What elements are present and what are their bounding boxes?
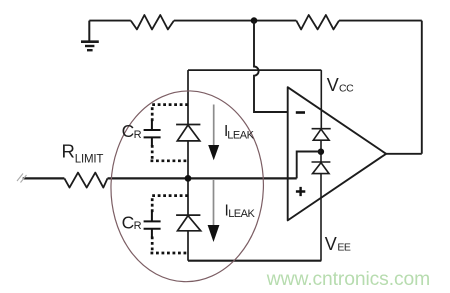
- wire + input to diode node: [297, 152, 321, 179]
- svg-text:www.cntronics.com: www.cntronics.com: [266, 269, 430, 290]
- wire inverting input with hop: [254, 21, 288, 112]
- svg-text:R: R: [134, 129, 142, 141]
- wire input break ticks: [17, 174, 27, 183]
- wire right rail vertical segments: [320, 70, 322, 261]
- wire non-inverting input: [23, 177, 297, 179]
- node top junction: [251, 17, 258, 24]
- diode D2 (left bottom): [176, 215, 201, 231]
- wire right vertical (feedback): [421, 21, 423, 154]
- wire Vcc rail (box top edge): [188, 69, 321, 71]
- wire Vee rail (box bottom edge): [188, 260, 321, 262]
- op-amp plus sign: [296, 187, 305, 196]
- diode D1 (left top): [176, 125, 200, 141]
- arrow I_LEAK top: [213, 105, 215, 147]
- diode D4 (op-amp lower): [312, 162, 331, 174]
- svg-text:LEAK: LEAK: [227, 130, 254, 142]
- capacitor CR bottom dashed link: [151, 196, 189, 253]
- wire op-amp output: [386, 153, 422, 155]
- node diode midpoint: [318, 149, 324, 155]
- arrow I_LEAK bottom: [213, 180, 215, 226]
- ellipse highlight: [108, 88, 267, 284]
- resistor R1 (top left): [131, 15, 174, 29]
- svg-text:LEAK: LEAK: [228, 208, 255, 220]
- diode D3 (op-amp upper): [312, 129, 331, 141]
- capacitor CR top plates: [144, 121, 161, 147]
- svg-text:R: R: [62, 140, 75, 161]
- ground: [81, 21, 99, 51]
- op-amp U1: [288, 87, 386, 220]
- svg-text:EE: EE: [337, 242, 351, 254]
- op-amp minus sign: [296, 111, 305, 114]
- svg-text:C: C: [122, 121, 135, 141]
- node input junction: [185, 175, 192, 182]
- svg-text:LIMIT: LIMIT: [75, 153, 104, 165]
- capacitor CR top dashed link: [151, 105, 189, 161]
- svg-text:V: V: [325, 234, 337, 254]
- resistor R_LIMIT: [64, 173, 107, 188]
- svg-text:R: R: [134, 220, 142, 232]
- wire top rail: [89, 20, 422, 22]
- resistor R2 (top right): [296, 15, 339, 29]
- capacitor CR bottom plates: [144, 212, 161, 238]
- svg-text:CC: CC: [339, 83, 354, 95]
- svg-text:V: V: [327, 75, 339, 95]
- wire left rail vertical segments: [187, 70, 189, 261]
- svg-text:C: C: [122, 212, 135, 232]
